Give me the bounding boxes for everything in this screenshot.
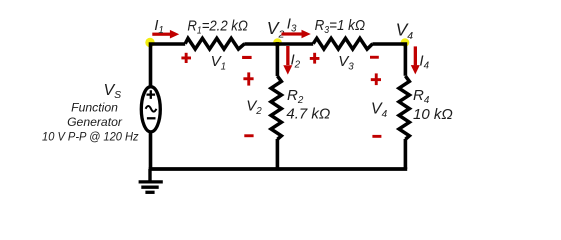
svg-text:Function: Function [71,101,118,115]
svg-text:I3: I3 [287,16,297,35]
svg-text:I1: I1 [154,17,164,36]
minus terminal mark [147,117,156,119]
V1 minus sign [242,56,252,59]
V4 plus sign [371,73,381,85]
svg-text:4.7 kΩ: 4.7 kΩ [286,106,330,123]
V3 plus sign [310,53,320,64]
svg-text:I2: I2 [291,52,301,71]
current arrow I1 [152,30,179,39]
svg-text:V1: V1 [211,53,226,72]
current arrow I4 [411,46,420,74]
node V2 (junction R1/R2/R3) [273,38,282,47]
svg-text:VS: VS [104,82,122,101]
node V4 (junction R3/R4) [401,38,410,47]
node A (source output, top-left corner) [145,38,154,47]
svg-text:V2: V2 [267,18,285,40]
sine symbol [146,106,157,112]
resistor R2 [271,76,281,139]
svg-text:R3=1 kΩ: R3=1 kΩ [315,17,366,36]
V4 minus sign [372,135,381,138]
svg-text:V4: V4 [396,20,414,42]
plus terminal mark [147,90,156,99]
ground [139,182,163,192]
resistor R4 [399,76,409,139]
wire (source to bottom rail) [149,132,153,169]
resistor R3 [313,38,372,49]
wire (R1 to node V2) [244,42,313,46]
V3 minus sign [370,56,379,59]
wire (bottom rail) [149,167,408,171]
svg-text:R2: R2 [287,87,304,106]
svg-text:I4: I4 [419,53,429,72]
wire (node V2 down to R2) [276,42,280,76]
wire (ground stem) [148,169,151,182]
wire (R2 to bottom rail) [276,139,280,169]
wire (node A corner: left branch up + top rail to R1) [151,44,186,87]
resistor R1 [185,38,244,49]
V1 plus sign [181,53,191,63]
V2 minus sign [244,134,253,137]
wire (R4 to bottom rail) [404,139,408,169]
svg-text:V3: V3 [338,53,354,72]
current arrow I2 [283,46,292,75]
svg-text:R1=2.2 kΩ: R1=2.2 kΩ [187,18,248,37]
function generator VS [141,87,160,132]
svg-text:10 V P-P @ 120 Hz: 10 V P-P @ 120 Hz [42,131,139,144]
svg-text:R4: R4 [413,87,430,106]
wire (R3 to node V4 corner, down to R4) [372,44,405,76]
V2 plus sign [243,72,253,85]
svg-text:V4: V4 [371,101,388,120]
current arrow I3 [282,30,311,39]
svg-text:10 kΩ: 10 kΩ [413,106,453,123]
svg-text:Generator: Generator [67,115,123,129]
svg-text:V2: V2 [246,98,262,117]
